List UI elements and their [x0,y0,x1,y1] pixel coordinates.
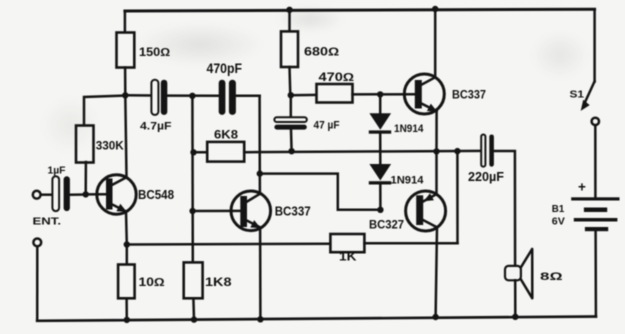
svg-text:4.7µF: 4.7µF [140,121,172,133]
svg-text:1N914: 1N914 [394,123,424,135]
capacitor C1 1uF positive plate [52,176,59,211]
diode D1 1N914 triangle [369,113,391,130]
wire feedback line left [127,242,331,245]
svg-text:470Ω: 470Ω [319,72,355,84]
input terminal ENT upper circle [33,191,41,199]
resistor R3 6K8 left lead [194,151,208,154]
switch S1 blade arrowhead [581,100,590,111]
input terminal lower circle [33,239,41,247]
svg-text:+: + [578,180,586,195]
svg-text:8Ω: 8Ω [540,271,563,283]
battery B1 plate 3 long [574,218,618,222]
speaker SP cone [521,249,532,298]
battery B1 plate 4 short [585,227,608,231]
wire vertical base line Q2 [191,96,194,263]
transistor Q3 emitter arrow [427,104,437,112]
wire base Q2 [193,210,241,213]
resistor R5 10R top lead [126,245,129,265]
transistor Q2 base bar [240,196,247,227]
node 680R top on rail [286,7,292,13]
transistor Q4 collector diagonal [422,220,437,228]
svg-text:BC337: BC337 [452,88,486,102]
transistor Q2 BC337 circle [231,191,271,231]
svg-text:1N914: 1N914 [391,175,425,187]
resistor R1 bottom lead [124,68,127,96]
wire 1K riser to output node [456,151,459,243]
resistor R1 150R body [117,33,135,68]
transistor Q4 emitter lead up [435,151,438,194]
speaker SP magnet box [505,266,521,280]
capacitor C5 220uF negative plate [489,135,494,167]
resistor R2 bottom lead [84,162,87,194]
wire top-right corner down to switch [593,9,596,81]
transistor Q2 collector diagonal [246,194,260,203]
transistor Q1 emitter arrow [116,204,126,212]
node Q3 collector on rail [432,6,438,12]
svg-text:10Ω: 10Ω [139,277,165,289]
node emitter Q1 / feedback [124,241,130,247]
svg-text:B1: B1 [552,203,565,215]
svg-text:BC337: BC337 [275,205,311,219]
transistor Q3 collector lead to rail [434,9,437,77]
wire ground rail [37,317,596,321]
capacitor C5 220uF positive plate [481,135,485,167]
resistor R2 330K top lead with jog to collector node [84,96,125,126]
capacitor C2 4.7uF positive plate [151,80,158,115]
wire collector node to C2 [125,94,151,97]
diode D1 1N914 top lead [379,94,382,113]
node 6K8 left [190,149,196,155]
wire between diodes [379,134,382,164]
transistor Q4 emitter diagonal [424,194,437,201]
wire corner down to Q2 collector node [258,96,261,174]
diode D1 cathode bar [369,130,391,133]
transistor Q4 collector lead down to ground [436,227,437,317]
wire Q2 collector to Q4 base [260,174,381,210]
node 47uF bottom on output line [288,148,294,154]
node collector Q1 / C2 left [122,92,128,98]
svg-text:BC548: BC548 [138,187,174,202]
wire lower terminal to ground rail [36,246,39,320]
resistor R6 1K body [330,234,364,252]
wire C2 to C3 node [167,94,218,97]
node 680R / 470R / 47uF [288,92,294,98]
wire C1 to base node [70,193,86,196]
transistor Q4 BC327 circle [406,191,446,231]
transistor Q3 base bar [415,80,422,109]
node emitters junction [433,148,439,154]
transistor Q2 collector lead up [259,174,262,194]
transistor Q4 emitter arrow (points to bar) [424,193,434,201]
resistor R7 680R top lead [288,10,291,32]
wire C3 right to corner [236,94,260,97]
wire top supply rail [125,9,595,11]
wire speaker to ground rail [514,280,517,317]
svg-text:S1: S1 [570,89,585,101]
svg-text:1µF: 1µF [48,165,67,177]
transistor Q1 collector lead up [125,95,126,177]
transistor Q1 base bar [106,179,113,210]
transistor Q1 collector diagonal [111,177,127,185]
node C2/C3 junction [189,93,195,99]
transistor Q3 emitter lead down [435,111,438,151]
wire C5 to speaker corner [494,151,515,266]
capacitor C4 47uF top lead [290,95,293,117]
switch S1 terminal circle [592,118,599,125]
resistor R 150R top lead [124,11,127,33]
capacitor C4 47uF positive plate [274,117,306,122]
capacitor C2 4.7uF negative plate [161,80,168,115]
node diode top [377,91,383,97]
svg-text:ENT.: ENT. [33,216,62,228]
transistor Q1 emitter lead down [125,212,128,245]
wire battery to ground rail [594,231,597,316]
node 10R on ground [124,317,130,323]
transistor Q1 BC548 circle [97,175,136,214]
node Q4 base [377,207,383,213]
transistor Q1 emitter diagonal [111,204,126,212]
resistor R2 330K body [76,126,94,163]
wire 1K right lead [364,242,457,245]
node 1K8 on ground [191,316,197,322]
resistor R7 680R body [281,31,298,67]
diode D2 bottom lead [379,185,382,210]
node speaker on ground rail [512,314,518,320]
resistor R7 bottom lead [288,67,291,95]
wire output line [244,151,481,152]
resistor R8 470R left lead [291,94,317,97]
diode D2 1N914 triangle [369,164,391,181]
wire input to C1 [41,193,53,196]
svg-text:BC327: BC327 [369,218,404,232]
transistor Q3 collector diagonal [420,77,435,85]
wire switch to battery [594,125,597,197]
transistor Q2 emitter diagonal [246,220,261,228]
node Q2 collector [257,170,263,176]
svg-text:1K: 1K [339,252,357,264]
resistor R8 470R body [317,84,353,103]
resistor R5 bottom lead [125,298,128,320]
transistor Q2 emitter lead down [259,228,262,320]
diode D2 cathode bar [369,181,391,184]
transistor Q2 emitter arrow [250,220,260,228]
transistor Q3 emitter diagonal [420,103,437,111]
resistor R4 1K8 body [184,262,203,298]
node 1K riser on output line [454,148,460,154]
wire base node to Q1 [86,193,107,196]
capacitor C1 1uF negative plate [64,176,70,211]
capacitor C3 470pF left plate [219,80,226,115]
node Q2 emitter on ground [257,316,263,322]
resistor R8 right lead to Q3 base [353,93,416,96]
switch S1 blade [584,82,595,106]
battery B1 plate 1 long [571,197,619,200]
resistor R5 10R body [118,265,135,299]
capacitor C3 470pF right plate [229,80,236,115]
svg-text:47 µF: 47 µF [314,120,340,132]
transistor Q4 base bar [416,195,423,225]
svg-text:680Ω: 680Ω [304,46,339,58]
capacitor C4 bottom lead [290,130,293,152]
svg-text:6V: 6V [552,215,565,227]
capacitor C4 47uF negative plate [274,125,306,130]
svg-text:6K8: 6K8 [214,130,239,142]
battery B1 plate 2 short [584,208,607,213]
svg-text:1K8: 1K8 [205,277,232,289]
svg-text:220µF: 220µF [468,170,504,184]
resistor R3 6K8 body [207,142,244,162]
resistor R4 bottom lead [192,298,195,319]
transistor Q3 BC337 circle [404,74,444,114]
node base Q1 [83,191,89,197]
node Q4 collector on ground [432,314,438,320]
node base Q2 [189,208,195,214]
